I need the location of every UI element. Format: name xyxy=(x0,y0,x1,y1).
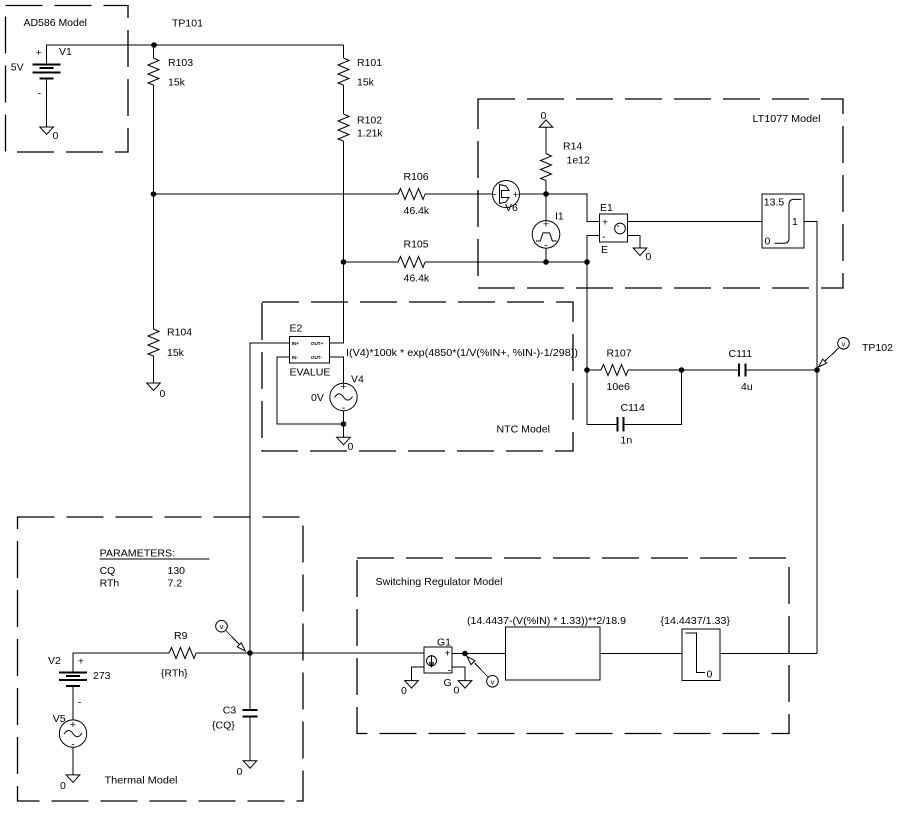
wire R14 node to E1 plus input xyxy=(546,194,600,222)
svg-text:V5: V5 xyxy=(53,713,66,725)
wire mid net down to R104 xyxy=(153,194,155,329)
voltage source V2 battery xyxy=(59,672,87,686)
svg-text:R102: R102 xyxy=(357,115,382,127)
wire node to C111 left plate xyxy=(682,369,740,371)
resistor R107 xyxy=(601,365,628,376)
svg-text:273: 273 xyxy=(93,670,111,682)
svg-text:E1: E1 xyxy=(600,202,613,214)
evalue block E2 xyxy=(290,337,330,364)
svg-text:IN-: IN- xyxy=(292,355,299,360)
wire E1 minus input to net y=262 xyxy=(587,236,600,263)
wire R103 bottom to mid net xyxy=(153,85,155,194)
svg-text:Switching Regulator Model: Switching Regulator Model xyxy=(376,576,503,588)
junction R107 left node xyxy=(584,367,590,373)
svg-text:V2: V2 xyxy=(48,655,61,667)
svg-text:0: 0 xyxy=(646,251,652,263)
wire V5 bottom to ground xyxy=(72,747,74,775)
wire net y=262 down to R107 xyxy=(586,262,588,370)
svg-text:0: 0 xyxy=(53,130,59,142)
svg-text:0: 0 xyxy=(765,236,771,248)
ground 0 below V1 xyxy=(40,127,54,135)
wire limiter output down right side xyxy=(804,222,817,654)
svg-text:10e6: 10e6 xyxy=(607,381,631,393)
svg-text:15k: 15k xyxy=(167,347,185,359)
wire R102 bottom to R105 node xyxy=(343,141,345,262)
ground 0 below V4 xyxy=(337,437,351,445)
wire R105 right lead to E- node xyxy=(425,261,587,263)
svg-text:+: + xyxy=(70,719,76,731)
svg-text:PARAMETERS:: PARAMETERS: xyxy=(100,548,176,560)
dashed model box LT1077 xyxy=(478,99,843,288)
svg-text:E2: E2 xyxy=(290,323,303,335)
wire E2 OUT- down to V4 xyxy=(330,357,344,383)
junction TP101 node xyxy=(151,42,157,48)
wire R9 right lead to G1 xyxy=(196,652,424,654)
wire R107 right lead xyxy=(628,369,682,371)
svg-text:R105: R105 xyxy=(404,239,429,251)
junction G1 output node xyxy=(462,651,468,657)
svg-text:-: - xyxy=(602,231,606,243)
svg-text:0V: 0V xyxy=(311,392,324,404)
wire E1 ref pin to ground xyxy=(628,236,641,249)
svg-text:C114: C114 xyxy=(621,402,645,414)
svg-text:AD586 Model: AD586 Model xyxy=(24,17,88,29)
wire E2 IN- loop to V4 ground node xyxy=(277,357,344,424)
junction R107/C111 node xyxy=(679,367,685,373)
parameters table xyxy=(100,548,210,590)
svg-text:Thermal Model: Thermal Model xyxy=(105,775,178,787)
wire horizontal net y=262 to R105 xyxy=(344,261,399,263)
svg-text:E: E xyxy=(601,244,608,256)
wire E2 OUT+ up to R105 node xyxy=(330,262,344,343)
wire C114 right to node xyxy=(624,370,682,425)
svg-text:OUT-: OUT- xyxy=(311,355,322,360)
svg-text:TP102: TP102 xyxy=(862,342,893,354)
svg-text:EVALUE: EVALUE xyxy=(290,367,331,379)
wire G1 output to ABM block xyxy=(452,653,506,655)
ground 0 below C3 xyxy=(243,761,257,769)
svg-text:{CQ}: {CQ} xyxy=(212,720,235,732)
resistor R102 xyxy=(338,114,349,141)
svg-text:0: 0 xyxy=(348,441,354,453)
voltage source V1 battery xyxy=(33,64,61,78)
resistor R103 xyxy=(148,58,159,85)
dashed model box Switching Regulator xyxy=(357,558,789,734)
ground 0 below V5 xyxy=(66,775,80,783)
svg-text:0: 0 xyxy=(60,780,66,792)
probe marker at thermal node xyxy=(216,620,246,651)
svg-text:0: 0 xyxy=(707,669,713,681)
svg-text:V1: V1 xyxy=(59,46,72,58)
svg-text:{RTh}: {RTh} xyxy=(161,668,188,680)
svg-text:R9: R9 xyxy=(174,630,188,642)
svg-text:{14.4437/1.33}: {14.4437/1.33} xyxy=(661,615,731,627)
capacitor C114 xyxy=(618,417,624,432)
junction I1 bottom node xyxy=(543,259,549,265)
wire C114 branch loop xyxy=(587,370,618,425)
svg-text:-: - xyxy=(448,665,452,677)
resistor R9 xyxy=(169,648,196,659)
svg-text:G: G xyxy=(444,677,452,689)
wire V1 minus stem to ground xyxy=(46,78,48,127)
wire E1 output to limiter xyxy=(628,221,763,223)
wire V4 bottom to ground node xyxy=(343,411,345,438)
svg-text:7.2: 7.2 xyxy=(168,578,183,590)
svg-text:-: - xyxy=(342,402,346,414)
svg-text:1: 1 xyxy=(792,216,798,228)
junction V4 ground node xyxy=(341,421,347,427)
wire node to I1 top xyxy=(545,194,547,221)
svg-text:130: 130 xyxy=(168,565,186,577)
svg-text:R103: R103 xyxy=(168,57,193,69)
wire R107 left lead xyxy=(587,369,601,371)
limiter block 14.4437/1.33 xyxy=(682,629,720,681)
wire horizontal net y=194 R103 node to R106 xyxy=(154,193,399,195)
dashed model box AD586 xyxy=(6,6,129,153)
junction R103 mid net xyxy=(151,191,157,197)
wire C3 bottom plate to ground xyxy=(249,717,251,761)
wire I1 bottom to net y=262 xyxy=(545,248,547,262)
wire top net V1 to R101 column y=45 xyxy=(47,45,344,64)
svg-text:+: + xyxy=(340,381,346,393)
svg-text:+: + xyxy=(543,218,549,230)
svg-text:+: + xyxy=(513,189,519,201)
ground 0 at G1 right xyxy=(458,681,472,689)
resistor R14 xyxy=(541,154,552,181)
dashed model box Thermal xyxy=(18,517,304,801)
svg-text:-: - xyxy=(78,697,82,709)
wire limiter output to right riser xyxy=(720,653,817,655)
wire R103 top lead from TP101 node xyxy=(153,45,155,58)
svg-text:R14: R14 xyxy=(563,141,582,153)
svg-text:0: 0 xyxy=(541,110,547,122)
ABM expression block xyxy=(506,627,601,680)
svg-text:0: 0 xyxy=(454,685,460,697)
svg-text:C111: C111 xyxy=(729,348,753,360)
svg-text:1n: 1n xyxy=(621,435,633,447)
wire ground to R14 top xyxy=(545,127,547,153)
svg-text:1.21k: 1.21k xyxy=(357,128,383,140)
voltage source V6 xyxy=(493,181,520,208)
svg-text:IN+: IN+ xyxy=(292,341,300,346)
wire G1 left pin to ground xyxy=(412,667,425,681)
dashed model box NTC xyxy=(262,302,573,451)
svg-text:RTh: RTh xyxy=(100,578,120,590)
svg-text:R104: R104 xyxy=(167,327,192,339)
current source I1 xyxy=(532,221,560,249)
wire E2 IN+ left and down to thermal node xyxy=(250,343,290,653)
svg-text:NTC Model: NTC Model xyxy=(497,424,551,436)
svg-text:+: + xyxy=(36,47,42,59)
ground 0 at G1 left xyxy=(405,681,419,689)
resistor R105 xyxy=(398,257,425,268)
svg-text:V4: V4 xyxy=(351,374,364,386)
svg-text:-: - xyxy=(544,240,548,252)
svg-text:(14.4437-(V(%IN) * 1.33))**2/1: (14.4437-(V(%IN) * 1.33))**2/18.9 xyxy=(467,615,626,627)
ground 0 above R14 pointing up xyxy=(539,120,553,127)
probe marker at G1 output xyxy=(467,657,498,688)
svg-text:-: - xyxy=(38,88,42,100)
wire node to C3 top plate xyxy=(249,653,251,710)
wire R101 to R102 xyxy=(343,85,345,114)
junction TP102 node xyxy=(814,367,820,373)
resistor R104 xyxy=(148,329,159,356)
svg-text:5V: 5V xyxy=(11,62,24,74)
svg-text:46.4k: 46.4k xyxy=(404,205,430,217)
svg-text:1e12: 1e12 xyxy=(567,155,591,167)
ground 0 below R104 xyxy=(147,383,161,391)
svg-text:0: 0 xyxy=(401,685,407,697)
wire C111 right plate to TP102 node xyxy=(746,369,818,371)
wire R106 right lead to V6 xyxy=(425,193,493,195)
junction R102/R105 node xyxy=(341,259,347,265)
svg-text:TP101: TP101 xyxy=(172,17,203,29)
svg-text:R107: R107 xyxy=(607,348,632,360)
svg-text:v: v xyxy=(842,339,846,348)
capacitor C111 xyxy=(739,364,746,377)
svg-text:I1: I1 xyxy=(555,211,564,223)
voltage source V4 xyxy=(330,383,357,410)
svg-text:R101: R101 xyxy=(357,57,382,69)
limiter block 13.5/0 in LT1077 xyxy=(762,194,804,248)
wire ABM block output to limiter xyxy=(600,653,682,655)
probe TP102 marker xyxy=(819,338,850,368)
svg-text:13.5: 13.5 xyxy=(764,197,785,209)
controlled source G1 xyxy=(424,647,452,673)
svg-text:CQ: CQ xyxy=(100,565,116,577)
svg-text:15k: 15k xyxy=(168,77,186,89)
resistor R101 xyxy=(338,58,349,85)
svg-text:+: + xyxy=(78,656,84,668)
wire R14 bottom to node xyxy=(545,181,547,195)
svg-text:-: - xyxy=(493,189,497,201)
capacitor C3 xyxy=(243,710,258,716)
svg-text:+: + xyxy=(602,217,608,229)
ground 0 at E1 ref xyxy=(633,248,647,256)
wire G1 right pin to ground xyxy=(452,667,465,681)
wire R104 bottom to ground xyxy=(153,356,155,383)
controlled source E1 xyxy=(600,214,628,242)
svg-text:I(V4)*100k * exp(4850*(1/V(%IN: I(V4)*100k * exp(4850*(1/V(%IN+, %IN-)-1… xyxy=(346,347,578,359)
junction E- node xyxy=(584,259,590,265)
svg-text:OUT+: OUT+ xyxy=(311,341,324,346)
junction V6/R14 node xyxy=(543,191,549,197)
wire R101 top lead xyxy=(343,45,345,58)
wire V6 plus to R14 node xyxy=(520,193,547,195)
svg-text:15k: 15k xyxy=(357,77,375,89)
wire V2 top to R9 xyxy=(73,653,169,672)
junction thermal node xyxy=(247,650,253,656)
svg-text:4u: 4u xyxy=(741,381,753,393)
svg-text:C3: C3 xyxy=(223,705,237,717)
svg-text:LT1077 Model: LT1077 Model xyxy=(753,113,821,125)
svg-text:v: v xyxy=(220,622,224,631)
svg-text:0: 0 xyxy=(237,766,243,778)
resistor R106 xyxy=(398,189,425,200)
svg-text:R106: R106 xyxy=(404,171,429,183)
svg-text:+: + xyxy=(444,648,450,660)
svg-text:46.4k: 46.4k xyxy=(404,273,430,285)
svg-text:-: - xyxy=(71,738,75,750)
svg-text:v: v xyxy=(491,677,495,686)
voltage source V5 xyxy=(59,720,86,747)
svg-text:0: 0 xyxy=(160,388,166,400)
svg-text:V6: V6 xyxy=(505,202,518,214)
wire V2 minus to V5 top xyxy=(72,686,74,720)
